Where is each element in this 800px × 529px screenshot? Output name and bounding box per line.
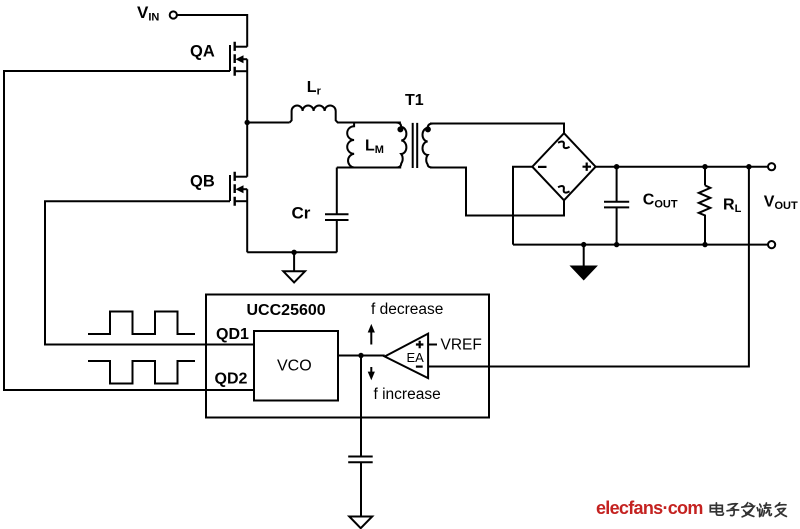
svg-text:RL: RL: [723, 197, 742, 216]
svg-text:LM: LM: [365, 138, 384, 157]
svg-text:VREF: VREF: [441, 337, 482, 354]
svg-text:T1: T1: [405, 92, 424, 109]
svg-text:VOUT: VOUT: [764, 194, 798, 213]
svg-text:QB: QB: [190, 173, 215, 191]
svg-text:f decrease: f decrease: [371, 301, 443, 318]
svg-text:Lr: Lr: [307, 79, 322, 97]
svg-text:QA: QA: [190, 43, 215, 61]
svg-text:EA: EA: [407, 350, 425, 365]
svg-text:f increase: f increase: [374, 386, 441, 403]
svg-text:VCO: VCO: [277, 358, 312, 375]
svg-text:elecfans·com: elecfans·com: [596, 498, 703, 518]
svg-text:QD2: QD2: [215, 370, 248, 387]
svg-text:VIN: VIN: [137, 3, 159, 24]
svg-text:UCC25600: UCC25600: [247, 302, 326, 319]
svg-text:QD1: QD1: [216, 326, 249, 343]
svg-text:Cr: Cr: [292, 204, 311, 223]
svg-text:COUT: COUT: [643, 192, 678, 211]
